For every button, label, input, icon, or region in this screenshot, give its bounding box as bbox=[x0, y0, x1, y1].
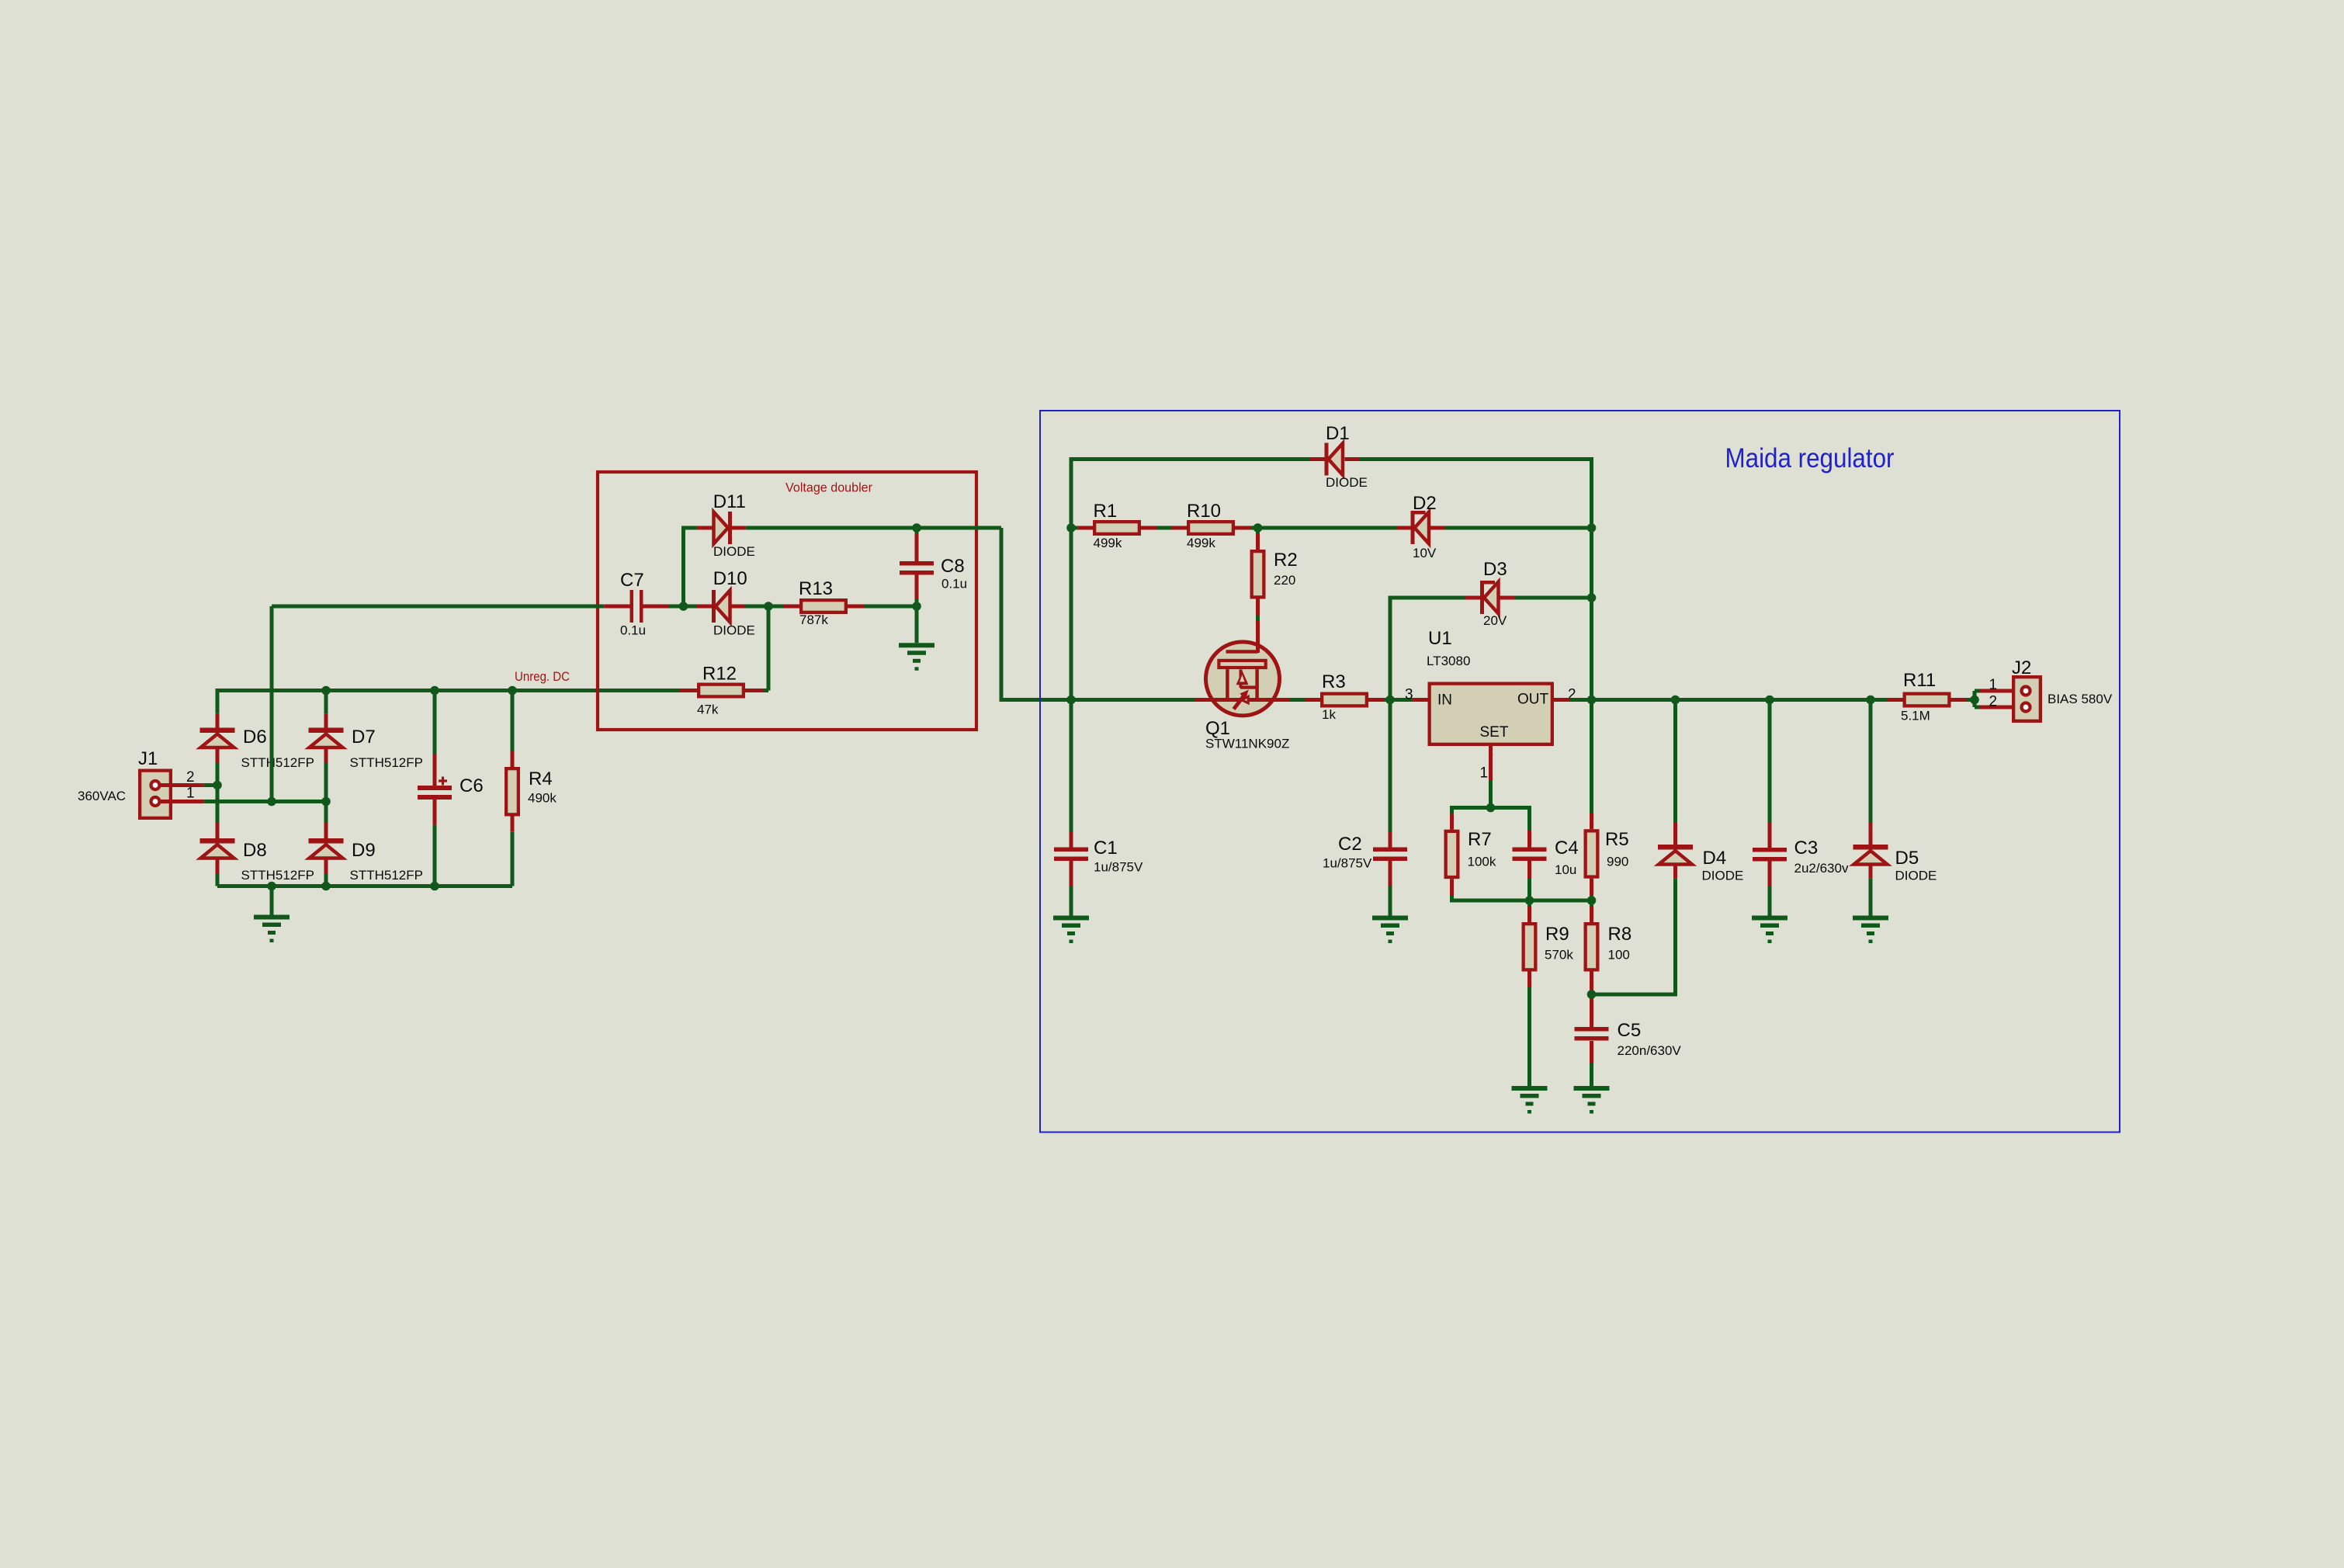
svg-text:360VAC: 360VAC bbox=[78, 789, 126, 803]
svg-text:C5: C5 bbox=[1618, 1020, 1642, 1041]
svg-text:5.1M: 5.1M bbox=[1901, 709, 1930, 723]
svg-text:D4: D4 bbox=[1703, 848, 1727, 869]
svg-text:490k: 490k bbox=[528, 791, 557, 806]
svg-text:IN: IN bbox=[1437, 692, 1452, 709]
svg-text:990: 990 bbox=[1607, 855, 1628, 869]
svg-text:R11: R11 bbox=[1903, 670, 1936, 691]
svg-text:D7: D7 bbox=[352, 727, 376, 748]
svg-text:Voltage doubler: Voltage doubler bbox=[785, 480, 872, 495]
svg-text:D11: D11 bbox=[713, 491, 746, 512]
svg-text:Unreg. DC: Unreg. DC bbox=[515, 669, 570, 684]
svg-text:STW11NK90Z: STW11NK90Z bbox=[1205, 737, 1289, 751]
svg-text:1: 1 bbox=[186, 786, 195, 802]
svg-text:20V: 20V bbox=[1483, 613, 1507, 628]
svg-text:C4: C4 bbox=[1555, 838, 1579, 859]
svg-text:D2: D2 bbox=[1413, 493, 1437, 514]
svg-text:STTH512FP: STTH512FP bbox=[241, 868, 314, 883]
svg-text:D5: D5 bbox=[1895, 848, 1919, 869]
svg-text:D10: D10 bbox=[713, 568, 747, 589]
svg-text:1: 1 bbox=[1480, 765, 1489, 782]
svg-text:100: 100 bbox=[1608, 948, 1630, 963]
svg-text:787k: 787k bbox=[799, 612, 828, 627]
svg-text:BIAS 580V: BIAS 580V bbox=[2048, 692, 2113, 706]
svg-text:U1: U1 bbox=[1428, 628, 1452, 649]
svg-text:R12: R12 bbox=[702, 664, 737, 685]
svg-text:1k: 1k bbox=[1322, 707, 1336, 722]
svg-text:R4: R4 bbox=[529, 768, 553, 789]
svg-text:SET: SET bbox=[1480, 724, 1509, 741]
svg-text:2u2/630v: 2u2/630v bbox=[1794, 861, 1849, 876]
svg-text:1: 1 bbox=[1989, 677, 1998, 693]
svg-text:C6: C6 bbox=[459, 775, 484, 796]
svg-text:10u: 10u bbox=[1555, 862, 1576, 877]
svg-text:D9: D9 bbox=[352, 840, 376, 861]
svg-text:2: 2 bbox=[186, 769, 195, 786]
svg-text:C1: C1 bbox=[1094, 838, 1118, 859]
svg-text:R1: R1 bbox=[1094, 501, 1118, 522]
svg-text:DIODE: DIODE bbox=[1326, 475, 1368, 490]
svg-text:R8: R8 bbox=[1608, 924, 1632, 945]
svg-text:0.1u: 0.1u bbox=[620, 623, 646, 637]
svg-text:1u/875V: 1u/875V bbox=[1323, 856, 1372, 871]
svg-text:1u/875V: 1u/875V bbox=[1094, 860, 1143, 875]
svg-text:R2: R2 bbox=[1274, 550, 1298, 571]
svg-text:R3: R3 bbox=[1322, 671, 1346, 692]
svg-text:C3: C3 bbox=[1794, 838, 1819, 859]
svg-text:R5: R5 bbox=[1605, 829, 1629, 850]
svg-text:STTH512FP: STTH512FP bbox=[241, 755, 314, 770]
svg-text:2: 2 bbox=[1989, 694, 1998, 710]
svg-text:0.1u: 0.1u bbox=[941, 577, 967, 591]
svg-text:C8: C8 bbox=[941, 556, 965, 577]
svg-text:C7: C7 bbox=[620, 570, 644, 591]
svg-text:DIODE: DIODE bbox=[1895, 869, 1937, 883]
svg-text:570k: 570k bbox=[1545, 948, 1573, 963]
svg-text:100k: 100k bbox=[1468, 855, 1496, 869]
svg-text:LT3080: LT3080 bbox=[1427, 654, 1470, 668]
svg-text:D3: D3 bbox=[1483, 559, 1507, 580]
svg-text:R13: R13 bbox=[799, 578, 833, 599]
svg-text:220n/630V: 220n/630V bbox=[1618, 1043, 1682, 1058]
svg-text:D1: D1 bbox=[1326, 423, 1350, 444]
svg-text:499k: 499k bbox=[1094, 536, 1122, 550]
svg-text:STTH512FP: STTH512FP bbox=[350, 868, 423, 883]
svg-text:J2: J2 bbox=[2012, 657, 2031, 678]
svg-text:220: 220 bbox=[1274, 573, 1295, 588]
svg-text:R7: R7 bbox=[1468, 829, 1492, 850]
svg-text:STTH512FP: STTH512FP bbox=[350, 755, 423, 770]
svg-text:D8: D8 bbox=[243, 840, 267, 861]
svg-text:J1: J1 bbox=[138, 748, 158, 769]
svg-text:R10: R10 bbox=[1187, 501, 1221, 522]
svg-text:R9: R9 bbox=[1545, 924, 1569, 945]
svg-text:DIODE: DIODE bbox=[713, 544, 755, 559]
svg-text:C2: C2 bbox=[1338, 834, 1362, 855]
svg-text:47k: 47k bbox=[697, 702, 719, 717]
svg-text:OUT: OUT bbox=[1517, 692, 1549, 708]
svg-text:499k: 499k bbox=[1187, 536, 1215, 550]
svg-text:DIODE: DIODE bbox=[1702, 869, 1744, 883]
svg-text:Maida regulator: Maida regulator bbox=[1725, 443, 1895, 474]
svg-text:DIODE: DIODE bbox=[713, 623, 755, 638]
svg-text:D6: D6 bbox=[243, 727, 267, 748]
svg-text:3: 3 bbox=[1405, 687, 1413, 703]
svg-text:10V: 10V bbox=[1413, 546, 1437, 560]
